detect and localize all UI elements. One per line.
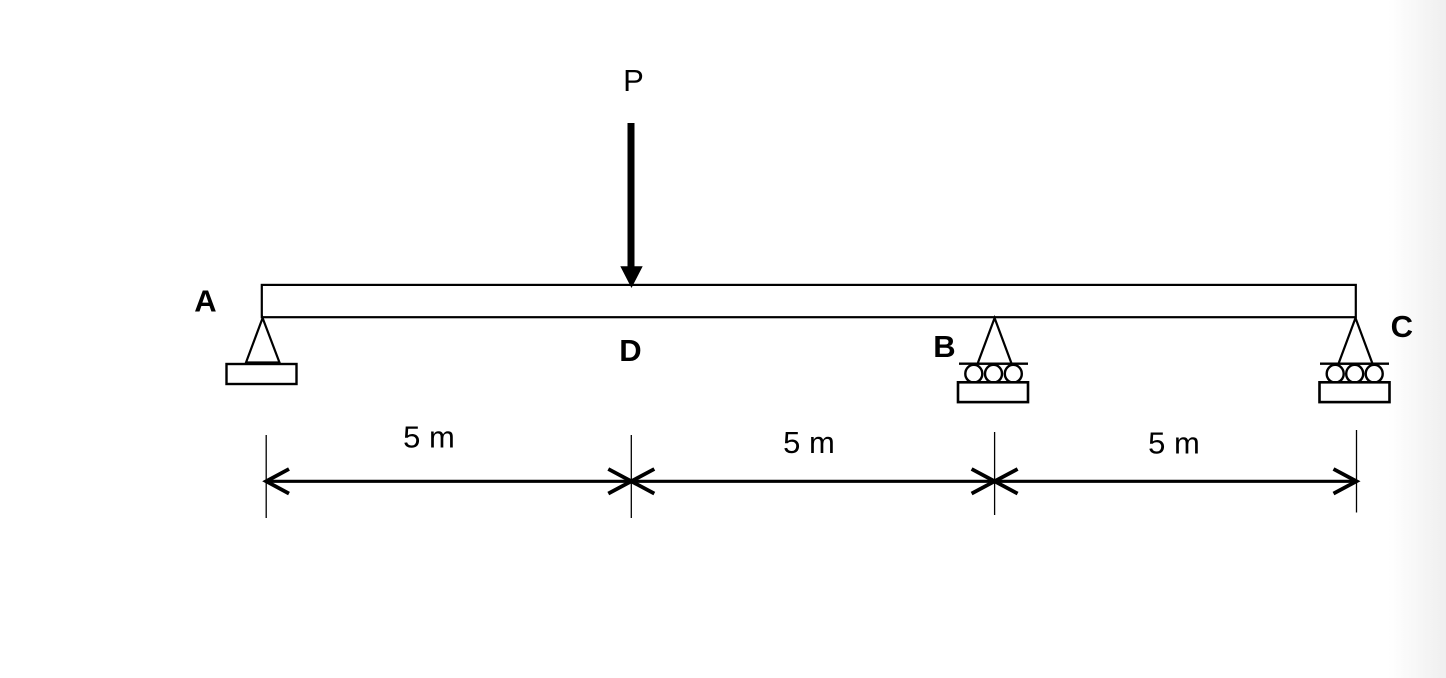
- svg-text:5 m: 5 m: [1148, 426, 1200, 461]
- roller support B base block: [958, 382, 1028, 402]
- dimension tick at C: [1356, 430, 1358, 513]
- page edge gradient: [1388, 0, 1446, 678]
- roller support C roller 1: [1327, 365, 1344, 383]
- roller support B roller 2: [985, 365, 1002, 383]
- dimension line A to C: [266, 480, 1356, 483]
- dimension arrowhead left at A: [266, 469, 289, 494]
- dimension arrowhead right at C: [1334, 469, 1357, 494]
- svg-text:B: B: [933, 329, 955, 364]
- load P arrow shaft: [628, 123, 635, 270]
- roller support C base block: [1320, 382, 1390, 402]
- roller support B roller 1: [965, 365, 982, 383]
- svg-text:D: D: [619, 333, 641, 368]
- load P arrowhead: [620, 266, 642, 288]
- roller support C roller 3: [1366, 365, 1383, 383]
- roller support C ground line: [1320, 363, 1389, 365]
- dimension tick at B: [994, 432, 996, 515]
- roller support B roller 3: [1005, 365, 1022, 383]
- svg-text:P: P: [623, 63, 644, 98]
- pin support A base block: [227, 364, 297, 384]
- roller support B ground line: [959, 363, 1028, 365]
- beam AC: [262, 285, 1356, 317]
- dimension tick at A: [265, 435, 267, 518]
- roller support C roller 2: [1346, 365, 1363, 383]
- dimension arrowhead right into D: [608, 469, 631, 494]
- svg-text:5 m: 5 m: [403, 420, 455, 455]
- svg-text:C: C: [1391, 309, 1413, 344]
- svg-text:5 m: 5 m: [783, 425, 835, 460]
- svg-text:A: A: [194, 284, 216, 319]
- roller support C triangle: [1339, 318, 1373, 364]
- dimension tick at D: [630, 435, 632, 518]
- dimension arrowhead left out of D: [631, 469, 654, 494]
- dimension arrowhead left out of B: [995, 469, 1018, 494]
- roller support B triangle: [978, 318, 1012, 364]
- pin support A triangle: [246, 318, 280, 363]
- dimension arrowhead right into B: [972, 469, 995, 494]
